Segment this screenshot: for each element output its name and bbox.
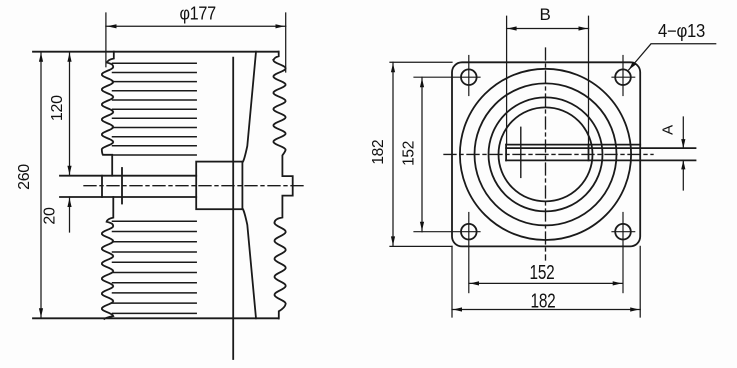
- centerline left view: [84, 185, 304, 187]
- svg-text:φ177: φ177: [179, 3, 216, 24]
- shed rib lines upper: [113, 63, 197, 155]
- svg-text:182: 182: [531, 291, 556, 313]
- dimension 182 bottom: [452, 246, 640, 317]
- dimension 152 bottom: [469, 282, 623, 284]
- bolt holes: [461, 69, 477, 85]
- left outer profile upper bellows: [102, 52, 114, 176]
- svg-text:4−φ13: 4−φ13: [658, 21, 705, 41]
- dimension 152 left: [421, 77, 423, 232]
- right outer profile with stem tab: [273, 52, 292, 319]
- svg-text:20: 20: [42, 207, 59, 225]
- body bottom line: [33, 317, 278, 319]
- center block: [196, 162, 242, 210]
- dimension 120: [69, 52, 71, 176]
- dimension 182 left: [390, 62, 452, 246]
- shaft left cap: [101, 176, 103, 197]
- small inner vertical: [520, 127, 522, 177]
- body top line: [33, 51, 279, 53]
- dimension B: [507, 16, 589, 144]
- centerlines right view: [444, 153, 653, 155]
- svg-text:182: 182: [370, 140, 387, 165]
- cone center vertical line: [232, 58, 234, 359]
- left outer profile lower bellows: [102, 197, 113, 319]
- shaft shoulder line: [121, 168, 123, 204]
- cone slant upper: [243, 52, 256, 162]
- dimension phi177: [106, 13, 286, 72]
- svg-text:120: 120: [49, 95, 66, 121]
- dimension 20: [69, 197, 71, 232]
- cone slant lower: [243, 209, 256, 318]
- svg-text:260: 260: [16, 164, 33, 190]
- svg-text:152: 152: [530, 262, 555, 284]
- stem: [506, 144, 640, 146]
- shaft lines: [60, 175, 196, 177]
- shed rib lines lower: [113, 221, 197, 313]
- dimension 260: [40, 52, 42, 319]
- flange square: [452, 62, 640, 246]
- dimension A: [682, 117, 684, 190]
- svg-text:A: A: [660, 125, 677, 135]
- circles: [460, 69, 631, 240]
- svg-text:B: B: [539, 5, 550, 24]
- label 4-phi13: [629, 44, 716, 70]
- svg-text:152: 152: [401, 141, 418, 166]
- hole crosshairs: [414, 56, 635, 293]
